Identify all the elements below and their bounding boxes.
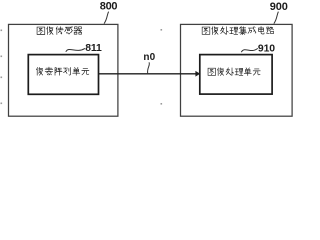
svg-text:910: 910 xyxy=(258,44,275,55)
svg-text:800: 800 xyxy=(100,0,118,12)
svg-text:n0: n0 xyxy=(143,52,155,63)
svg-text:811: 811 xyxy=(85,43,102,54)
svg-text:900: 900 xyxy=(270,1,288,13)
